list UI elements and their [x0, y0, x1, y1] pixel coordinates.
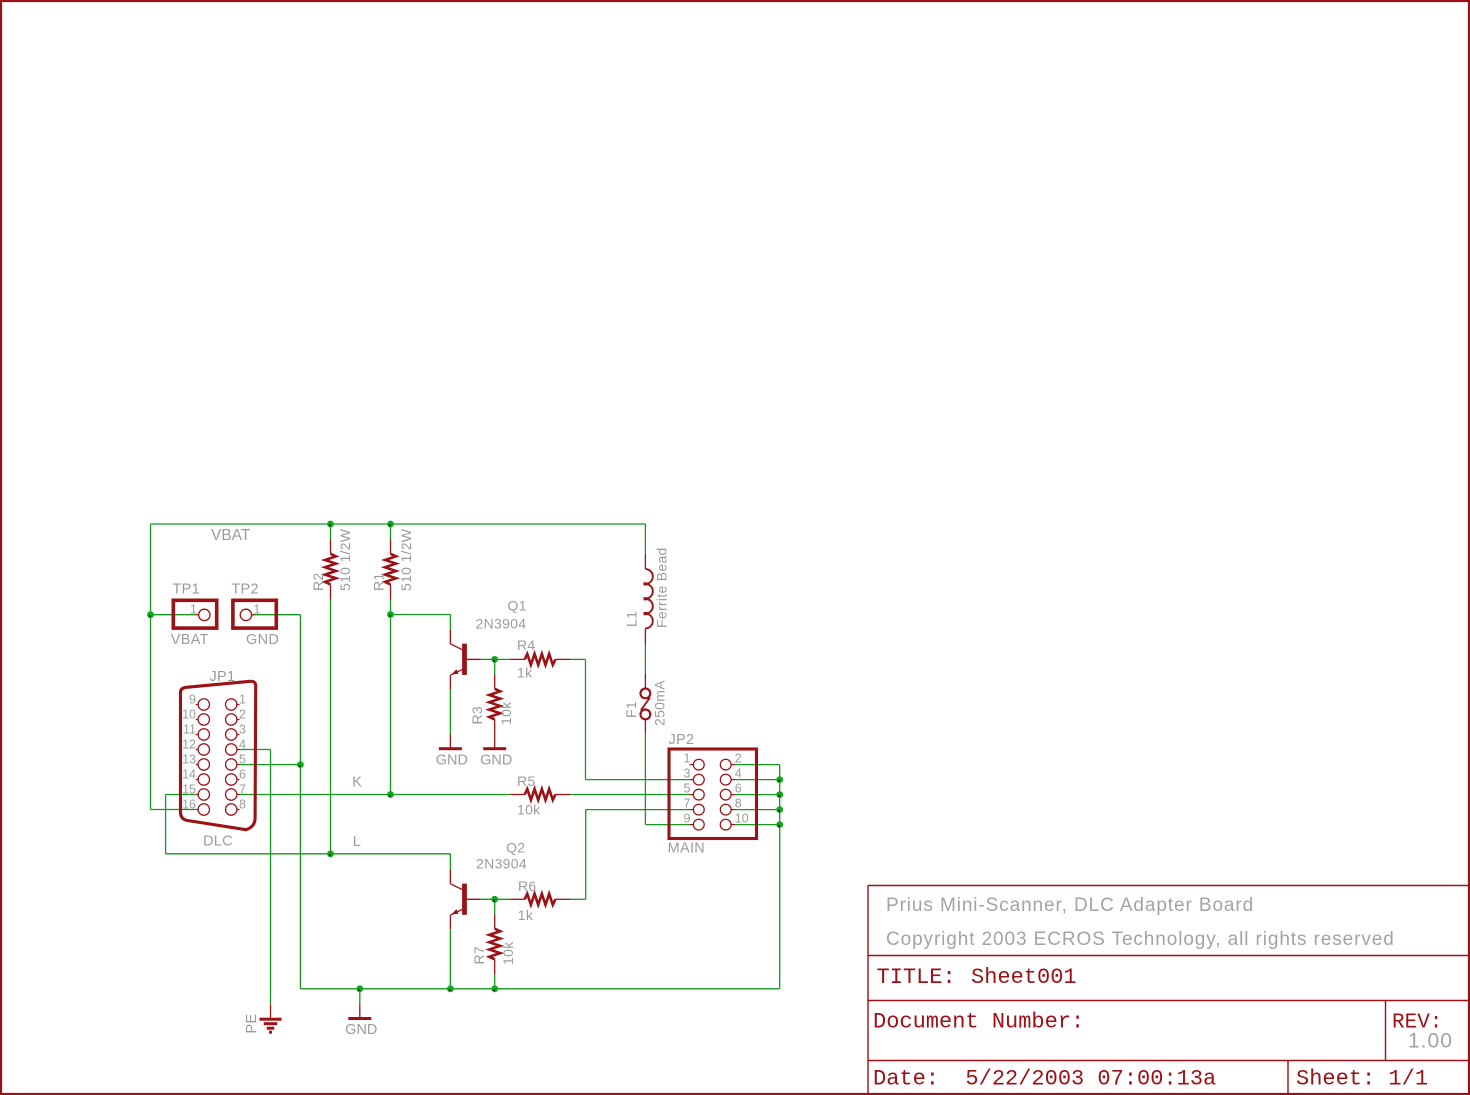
- wire R4 drop to JP2 pin3: [585, 659, 587, 779]
- svg-text:4: 4: [735, 767, 742, 781]
- svg-text:510 1/2W: 510 1/2W: [337, 528, 353, 591]
- svg-text:Sheet: 1/1: Sheet: 1/1: [1296, 1067, 1428, 1092]
- svg-text:6: 6: [239, 767, 246, 781]
- ground GND (bottom rail): [345, 1004, 377, 1038]
- wire K from R5 to JP2 pin5: [570, 794, 689, 796]
- svg-text:5: 5: [684, 782, 691, 796]
- junction R2 top: [327, 521, 334, 528]
- svg-text:F1: F1: [623, 701, 639, 718]
- wire VBAT to TP1: [151, 614, 197, 616]
- svg-text:1: 1: [254, 602, 261, 616]
- junction Q2 base/R7: [491, 896, 498, 903]
- svg-text:1: 1: [239, 692, 246, 706]
- wire R4 right: [570, 658, 585, 660]
- svg-text:JP1: JP1: [210, 669, 236, 685]
- wire Q1 base to R4: [481, 658, 511, 660]
- svg-text:10k: 10k: [500, 941, 516, 965]
- ground GND (R3): [480, 735, 512, 769]
- title block: [868, 886, 1469, 1094]
- svg-text:Date: 5/22/2003 07:00:13a: Date: 5/22/2003 07:00:13a: [873, 1067, 1216, 1092]
- svg-text:5: 5: [239, 752, 246, 766]
- resistor R3: [469, 675, 514, 735]
- svg-text:15: 15: [182, 782, 196, 796]
- wire VBAT to JP1 pin16: [151, 809, 196, 811]
- junction K line: [387, 791, 394, 798]
- svg-text:9: 9: [189, 692, 196, 706]
- svg-text:Sheet001: Sheet001: [971, 965, 1077, 990]
- net label L: [353, 834, 361, 850]
- ground PE (protective earth): [244, 1004, 282, 1033]
- wire base node to R7: [494, 899, 496, 914]
- transistor Q1: [450, 598, 526, 690]
- svg-text:2: 2: [239, 707, 246, 721]
- wire VBAT top rail: [151, 523, 646, 525]
- resistor R1: [371, 528, 415, 599]
- svg-text:L1: L1: [624, 611, 640, 627]
- svg-text:VBAT: VBAT: [171, 632, 209, 648]
- svg-text:K: K: [352, 774, 362, 790]
- wire VBAT left rail: [150, 524, 152, 810]
- svg-text:R2: R2: [310, 573, 326, 592]
- svg-text:8: 8: [239, 797, 246, 811]
- svg-text:2N3904: 2N3904: [476, 616, 527, 632]
- svg-text:510 1/2W: 510 1/2W: [398, 528, 414, 591]
- svg-text:R6: R6: [518, 878, 537, 894]
- junction Q2 emitter: [447, 985, 454, 992]
- ground GND (Q1 emitter): [436, 735, 468, 769]
- junction R1 top: [387, 521, 394, 528]
- junction JP1 pin5/GND net: [297, 761, 304, 768]
- junction L line: [327, 850, 334, 857]
- wire GND bottom rail: [300, 988, 779, 990]
- svg-text:7: 7: [239, 782, 246, 796]
- wire L to Q2 collector: [449, 854, 451, 870]
- wire Q2 emitter to rail: [449, 929, 451, 988]
- junction JP2 pin10: [776, 821, 783, 828]
- test point TP2: [231, 582, 279, 648]
- wire JP2 pin2 to GND rail: [735, 764, 780, 766]
- svg-text:1: 1: [190, 602, 197, 616]
- svg-text:TP1: TP1: [173, 582, 201, 598]
- svg-text:R1: R1: [371, 573, 387, 592]
- resistor R4: [510, 637, 570, 681]
- svg-text:10k: 10k: [517, 802, 541, 818]
- wire F1 down: [644, 733, 646, 825]
- svg-text:9: 9: [684, 812, 691, 826]
- svg-text:GND: GND: [345, 1022, 377, 1038]
- svg-text:Document Number:: Document Number:: [873, 1010, 1084, 1035]
- junction JP2 pin4: [776, 776, 783, 783]
- svg-text:10: 10: [735, 812, 749, 826]
- svg-text:GND: GND: [246, 632, 279, 648]
- wire GND vertical from TP2: [299, 615, 301, 989]
- svg-text:12: 12: [182, 737, 196, 751]
- wire to JP2 pin9: [645, 824, 689, 826]
- wire base node to R3: [494, 659, 496, 674]
- svg-text:1k: 1k: [517, 665, 533, 681]
- wire TP2 to GND drop: [252, 614, 300, 616]
- test point TP1: [171, 582, 217, 648]
- junction JP2 pin6: [776, 791, 783, 798]
- svg-text:PE: PE: [244, 1014, 260, 1034]
- svg-text:10: 10: [182, 707, 196, 721]
- svg-text:R5: R5: [517, 773, 536, 789]
- wire L line: [166, 853, 451, 855]
- wire R6 right: [570, 898, 585, 900]
- wire JP2 pin7 left: [586, 809, 690, 811]
- svg-text:Prius Mini-Scanner, DLC Adapte: Prius Mini-Scanner, DLC Adapter Board: [886, 895, 1254, 916]
- svg-text:R7: R7: [471, 946, 487, 965]
- svg-text:3: 3: [239, 722, 246, 736]
- svg-text:7: 7: [684, 797, 691, 811]
- junction Q1 collector branch: [387, 611, 394, 618]
- connector JP2 (MAIN): [668, 732, 757, 857]
- inductor L1 (Ferrite Bead): [624, 547, 670, 645]
- wire K from JP1 pin7 to R5: [240, 794, 511, 796]
- wire Q1 emitter to GND: [449, 689, 451, 734]
- svg-text:JP2: JP2: [669, 732, 695, 748]
- wire JP1 pin5 to GND net: [240, 764, 301, 766]
- junction GND symbol: [356, 985, 363, 992]
- junction JP2 pin8: [776, 806, 783, 813]
- svg-text:2: 2: [735, 752, 742, 766]
- svg-text:13: 13: [182, 752, 196, 766]
- junction R7 bottom: [491, 985, 498, 992]
- wire R7 bottom to rail: [494, 974, 496, 988]
- svg-text:MAIN: MAIN: [668, 841, 705, 857]
- wire JP2 pin8 to GND rail: [735, 809, 780, 811]
- wire PE vertical: [270, 750, 272, 1005]
- resistor R7: [471, 914, 516, 974]
- svg-text:Copyright 2003 ECROS Technolog: Copyright 2003 ECROS Technology, all rig…: [886, 929, 1395, 950]
- svg-text:TP2: TP2: [231, 582, 259, 598]
- wire JP1 pin15 link: [166, 794, 196, 796]
- svg-text:Ferrite Bead: Ferrite Bead: [654, 547, 670, 628]
- svg-text:R3: R3: [469, 706, 485, 725]
- wire GND right rail: [779, 765, 781, 989]
- wire Q2 base to R6: [480, 898, 510, 900]
- svg-text:3: 3: [684, 767, 691, 781]
- svg-text:250mA: 250mA: [652, 680, 668, 726]
- svg-text:GND: GND: [436, 752, 468, 768]
- wire R2 bottom to L line: [330, 600, 332, 854]
- wire L1 to F1: [644, 645, 646, 673]
- wire JP1 pin4 to PE: [240, 749, 271, 751]
- wire pin15 drop to L: [165, 795, 167, 854]
- net label K: [352, 774, 362, 790]
- svg-text:GND: GND: [480, 752, 512, 768]
- resistor R5: [510, 773, 570, 818]
- wire JP2 pin6 to GND rail: [735, 794, 780, 796]
- svg-text:2N3904: 2N3904: [476, 856, 527, 872]
- svg-text:1: 1: [684, 752, 691, 766]
- fuse F1 (250mA): [623, 673, 668, 733]
- wire R2 top stub: [330, 524, 332, 540]
- svg-text:L: L: [353, 834, 361, 850]
- transistor Q2: [450, 840, 527, 930]
- svg-text:16: 16: [182, 797, 196, 811]
- wire to JP2 pin3: [586, 779, 690, 781]
- wire JP2 pin10 to GND rail: [735, 824, 780, 826]
- net label VBAT: [211, 527, 251, 544]
- svg-text:11: 11: [183, 722, 196, 736]
- svg-text:4: 4: [239, 737, 246, 751]
- svg-text:Q1: Q1: [508, 598, 527, 614]
- svg-text:1.00: 1.00: [1408, 1030, 1453, 1053]
- junction Q1 base/R3: [491, 656, 498, 663]
- svg-text:R4: R4: [517, 637, 536, 653]
- svg-text:VBAT: VBAT: [211, 527, 251, 544]
- wire R1 top stub: [390, 524, 392, 540]
- junction TP1/VBAT rail: [147, 611, 154, 618]
- svg-text:8: 8: [735, 797, 742, 811]
- svg-text:Q2: Q2: [506, 840, 525, 856]
- wire to Q1 collector: [391, 614, 451, 616]
- resistor R6: [510, 878, 570, 923]
- resistor R2: [310, 528, 353, 599]
- svg-text:14: 14: [182, 767, 196, 781]
- wire JP2 pin7 drop to R6: [585, 810, 587, 900]
- wire Q1 collector drop: [449, 615, 451, 631]
- svg-text:1k: 1k: [518, 907, 534, 923]
- wire GND symbol stub: [359, 989, 361, 1005]
- connector JP1 (DLC): [181, 669, 256, 849]
- svg-text:6: 6: [735, 782, 742, 796]
- svg-text:10k: 10k: [498, 701, 514, 725]
- wire VBAT rail drop to L1: [644, 524, 646, 554]
- wire JP2 pin4 to GND rail: [735, 779, 780, 781]
- wire R1 bottom to K line: [390, 600, 392, 795]
- svg-text:DLC: DLC: [203, 834, 233, 850]
- svg-text:TITLE:: TITLE:: [877, 965, 956, 990]
